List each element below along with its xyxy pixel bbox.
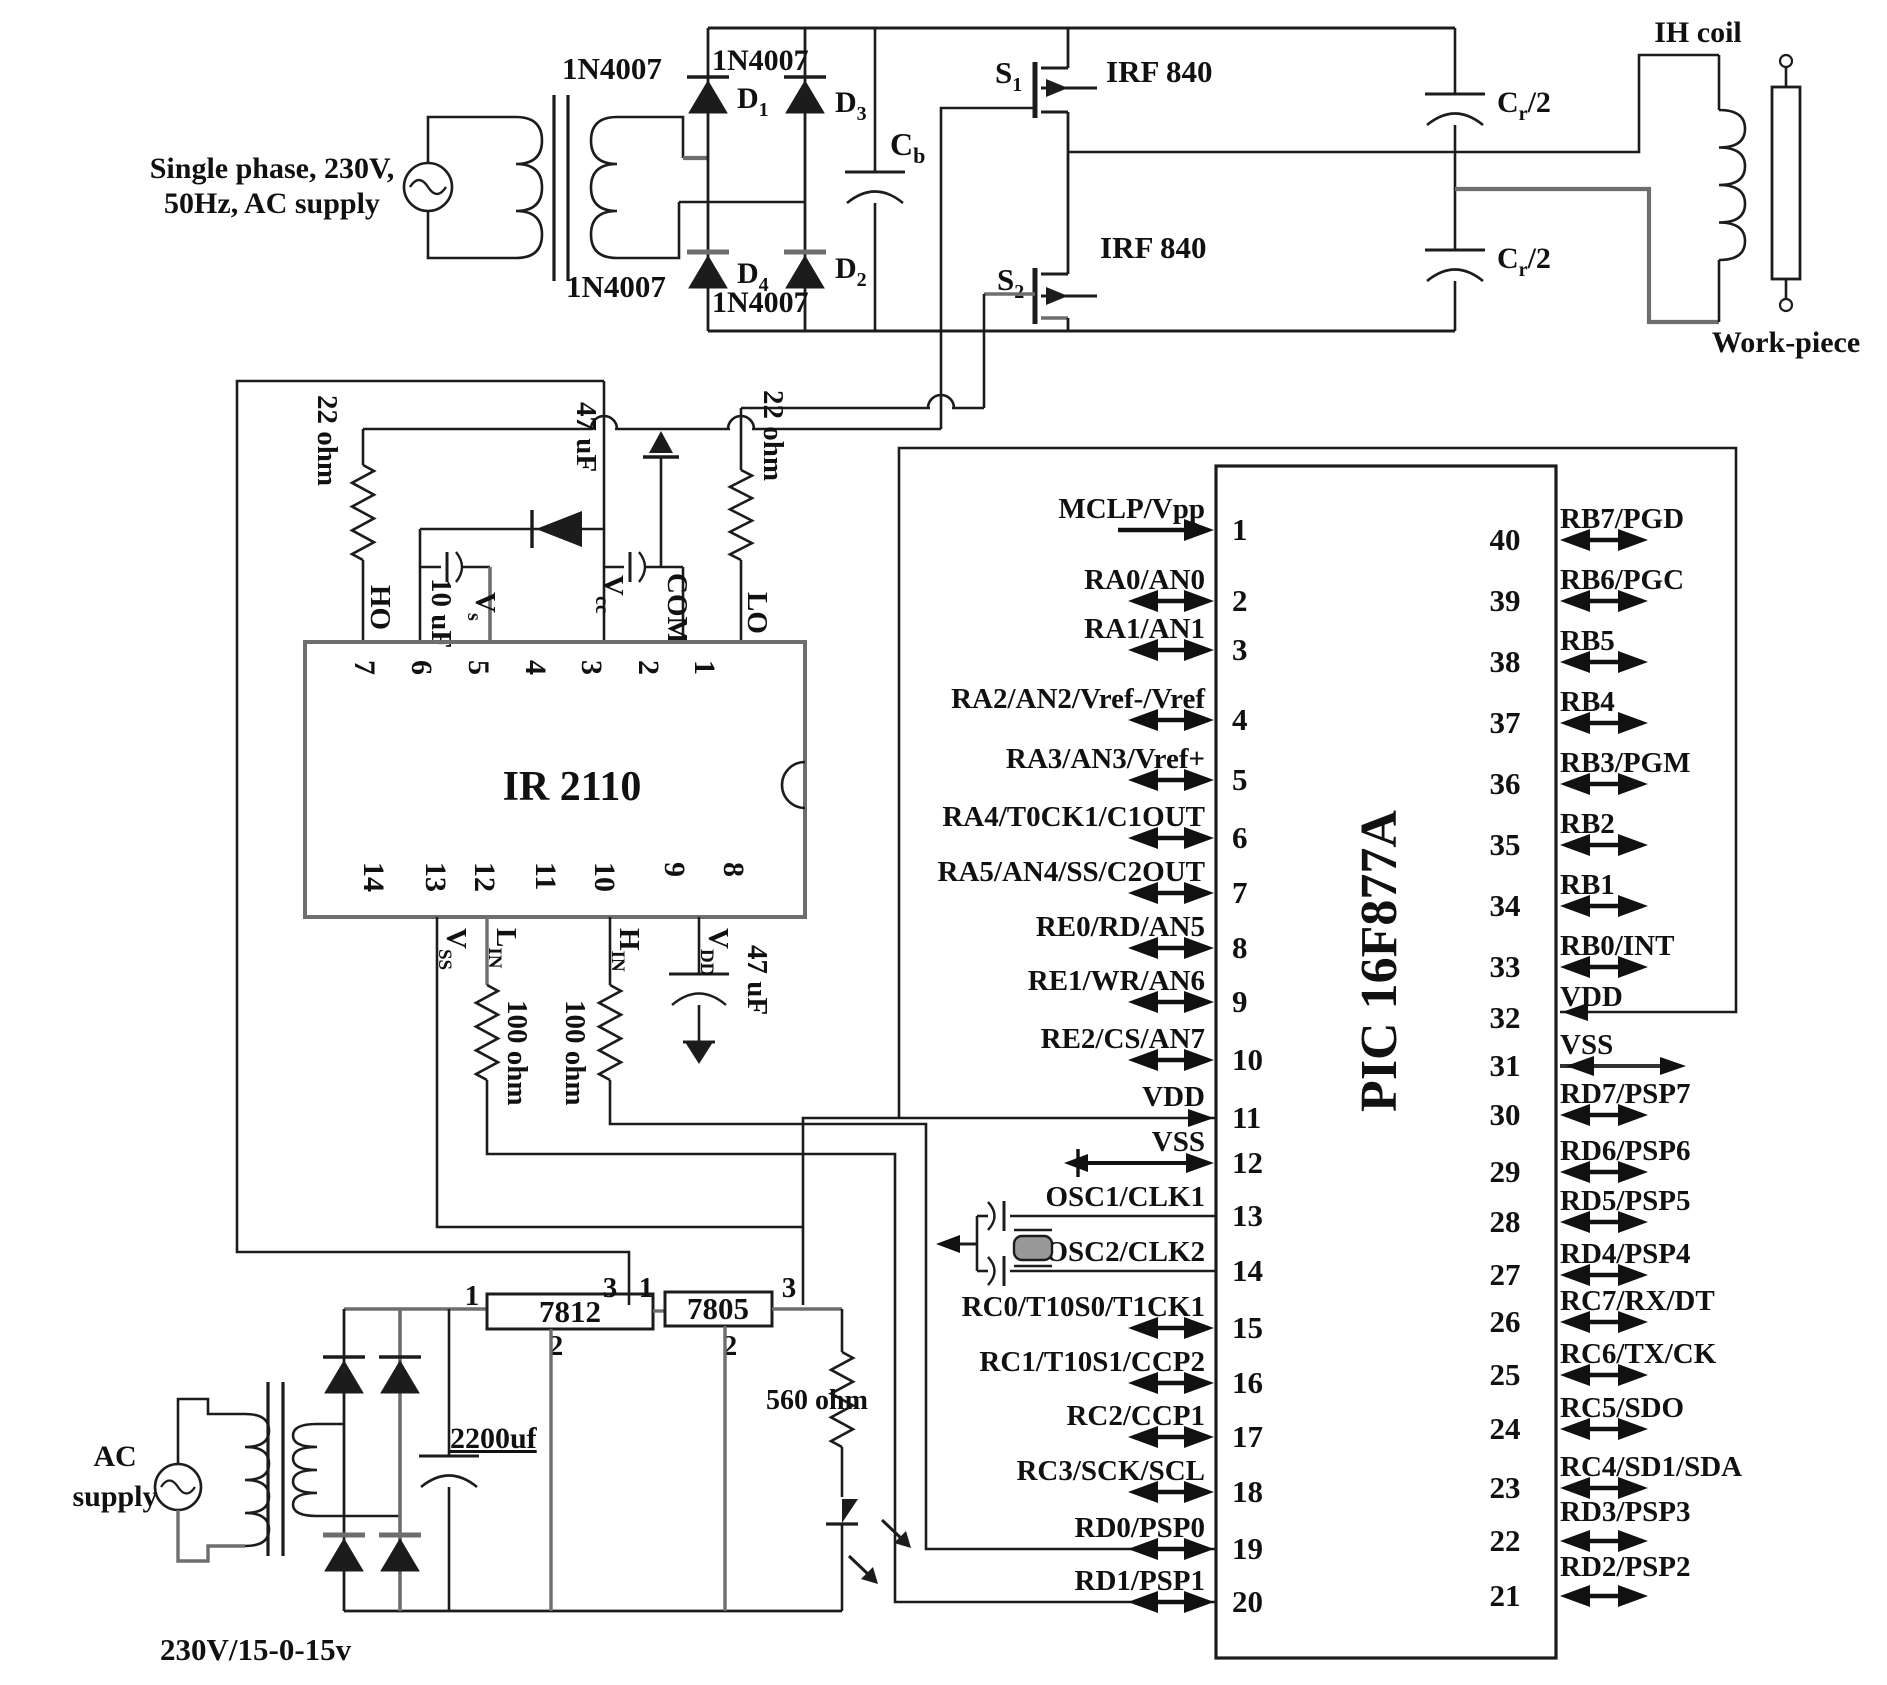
svg-text:RC2/CCP1: RC2/CCP1 [1066, 1400, 1205, 1432]
pin 9 RE1/WR/AN6 [1134, 1000, 1208, 1005]
pin 6 RA4/T0CK1/C1OUT [1134, 836, 1208, 841]
pin 18 RC3/SCK/SCL [1134, 1490, 1208, 1495]
wire 7812 gnd [549, 1329, 552, 1611]
svg-text:10 uF: 10 uF [425, 578, 457, 648]
svg-text:RB1: RB1 [1560, 869, 1615, 901]
wire D1 D4 branch [707, 28, 710, 331]
PSU bridge rails [344, 1307, 487, 1311]
pin 21 RD2/PSP2 [1566, 1594, 1642, 1599]
svg-text:40: 40 [1490, 522, 1521, 557]
svg-text:4: 4 [519, 660, 552, 675]
svg-text:8: 8 [717, 862, 750, 877]
svg-text:RD0/PSP0: RD0/PSP0 [1075, 1512, 1206, 1544]
svg-text:RB6/PGC: RB6/PGC [1560, 564, 1684, 596]
svg-text:RC3/SCK/SCL: RC3/SCK/SCL [1016, 1455, 1205, 1487]
svg-text:13: 13 [419, 862, 452, 892]
svg-text:230V/15-0-15v: 230V/15-0-15v [160, 1632, 352, 1667]
svg-text:6: 6 [1232, 820, 1248, 855]
transformer T1 primary coil [516, 117, 542, 258]
capacitor Cb [874, 28, 877, 172]
svg-text:AC: AC [93, 1440, 136, 1473]
pin 4 RA2/AN2/Vref-/Vref [1134, 718, 1208, 723]
svg-text:COM: COM [661, 573, 693, 644]
svg-text:RD7/PSP7: RD7/PSP7 [1560, 1078, 1691, 1110]
transformer T2 primary coil [245, 1414, 269, 1546]
svg-text:RC7/RX/DT: RC7/RX/DT [1560, 1285, 1715, 1317]
svg-text:RA1/AN1: RA1/AN1 [1084, 613, 1205, 645]
svg-text:10: 10 [588, 862, 621, 892]
svg-text:VDD: VDD [1142, 1081, 1205, 1113]
pin 34 RB1 [1566, 904, 1642, 909]
bridge bottom rail [708, 330, 1455, 333]
svg-text:3: 3 [1232, 632, 1248, 667]
wire crystal ground arrow [940, 1243, 977, 1246]
svg-text:30: 30 [1490, 1097, 1521, 1132]
svg-text:1: 1 [1232, 512, 1248, 547]
svg-text:37: 37 [1490, 705, 1521, 740]
svg-text:16: 16 [1232, 1365, 1263, 1400]
crystal X1 [1014, 1236, 1052, 1260]
diode PSU D7 [323, 1533, 365, 1538]
svg-text:100 ohm: 100 ohm [501, 1000, 533, 1106]
capacitor Cr/2 lower [1454, 189, 1457, 250]
svg-text:5: 5 [462, 660, 495, 675]
wire PSU diode branch 2 [398, 1309, 402, 1611]
transformer T1 secondary coil [591, 117, 617, 258]
ground Vcc bypass [660, 457, 663, 567]
svg-text:RB5: RB5 [1560, 625, 1615, 657]
pin 20 RD1/PSP1 [1134, 1600, 1208, 1605]
crystal oscillator circuit [1010, 1215, 1216, 1218]
pin 5 RA3/AN3/Vref+ [1134, 778, 1208, 783]
pin 27 RD4/PSP4 [1566, 1273, 1642, 1278]
wire pin2 COM [682, 567, 685, 642]
svg-text:Single phase, 230V,: Single phase, 230V, [150, 152, 395, 185]
svg-text:47 uF: 47 uF [570, 402, 602, 472]
pin 39 RB6/PGC [1566, 599, 1642, 604]
transformer T2 secondary coil [293, 1424, 317, 1516]
pin 31 VSS [1560, 1064, 1680, 1068]
svg-text:22 ohm: 22 ohm [311, 395, 343, 486]
svg-text:RD5/PSP5: RD5/PSP5 [1560, 1185, 1691, 1217]
AC source V2 [155, 1464, 201, 1510]
regulator 7805 [665, 1292, 772, 1326]
regulator 7812 [487, 1294, 653, 1329]
wire primary loop [428, 117, 516, 163]
svg-text:RB2: RB2 [1560, 808, 1615, 840]
pin 38 RB5 [1566, 660, 1642, 665]
wire pin9 Vdd [698, 917, 701, 974]
svg-text:1N4007: 1N4007 [712, 44, 809, 77]
work-piece [1772, 87, 1800, 279]
svg-text:34: 34 [1490, 888, 1521, 923]
wire pin5 Vs [488, 567, 492, 642]
svg-text:31: 31 [1490, 1048, 1521, 1083]
svg-text:33: 33 [1490, 949, 1521, 984]
pin 30 RD7/PSP7 [1566, 1113, 1642, 1118]
wire D3 D2 branch [804, 28, 807, 331]
svg-text:12: 12 [1232, 1145, 1263, 1180]
svg-text:8: 8 [1232, 930, 1248, 965]
svg-text:17: 17 [1232, 1419, 1263, 1454]
svg-text:39: 39 [1490, 583, 1521, 618]
wire LO net line C [741, 407, 930, 410]
pin 25 RC6/TX/CK [1566, 1373, 1642, 1378]
wire +12V to Vcc line [237, 381, 629, 1305]
svg-text:29: 29 [1490, 1154, 1521, 1189]
wire pin13 Vss [437, 917, 803, 1227]
pin 26 RC7/RX/DT [1566, 1320, 1642, 1325]
svg-text:RB3/PGM: RB3/PGM [1560, 747, 1691, 779]
svg-text:32: 32 [1490, 1000, 1521, 1035]
svg-text:27: 27 [1490, 1257, 1521, 1292]
svg-text:35: 35 [1490, 827, 1521, 862]
svg-text:supply: supply [72, 1480, 157, 1513]
wire pin12 Lin [485, 917, 488, 985]
AC source V1 [404, 163, 452, 211]
svg-text:12: 12 [468, 862, 501, 892]
transformer T1 core [552, 95, 555, 281]
svg-text:19: 19 [1232, 1531, 1263, 1566]
svg-text:Work-piece: Work-piece [1712, 326, 1860, 359]
svg-text:18: 18 [1232, 1474, 1263, 1509]
svg-text:MCLP/Vpp: MCLP/Vpp [1058, 493, 1205, 525]
svg-text:7812: 7812 [539, 1294, 601, 1329]
wire PSU primary loop [178, 1399, 245, 1464]
transistor S2 IRF840 [1033, 268, 1038, 324]
svg-text:20: 20 [1232, 1584, 1263, 1619]
LED D9 [826, 1499, 858, 1523]
svg-text:36: 36 [1490, 766, 1521, 801]
svg-text:21: 21 [1490, 1578, 1521, 1613]
svg-text:RA2/AN2/Vref-/Vref: RA2/AN2/Vref-/Vref [951, 683, 1205, 715]
op-amp U1 IR 2110 body [305, 642, 805, 917]
pin 37 RB4 [1566, 721, 1642, 726]
svg-text:LO: LO [741, 592, 773, 634]
svg-text:100 ohm: 100 ohm [559, 1000, 591, 1106]
pin 36 RB3/PGM [1566, 782, 1642, 787]
svg-text:7: 7 [348, 660, 381, 675]
svg-text:3: 3 [782, 1272, 797, 1304]
wire VDD riser [803, 1118, 1216, 1305]
svg-text:6: 6 [405, 660, 438, 675]
pin 35 RB2 [1566, 843, 1642, 848]
capacitor 47uF Vcc [604, 566, 624, 569]
svg-text:RA4/T0CK1/C1OUT: RA4/T0CK1/C1OUT [942, 801, 1205, 833]
svg-text:RD2/PSP2: RD2/PSP2 [1560, 1551, 1691, 1583]
pin 8 RE0/RD/AN5 [1134, 946, 1208, 951]
capacitor 10uF [420, 566, 441, 569]
capacitor 2200uf [448, 1309, 451, 1456]
svg-text:1: 1 [465, 1280, 480, 1312]
wire cap midpoint to IH coil return [1455, 189, 1719, 322]
wire half-bridge midpoint to IH coil [1068, 55, 1719, 152]
svg-text:RC6/TX/CK: RC6/TX/CK [1560, 1338, 1717, 1370]
svg-text:1: 1 [688, 660, 721, 675]
svg-text:IR 2110: IR 2110 [503, 764, 642, 810]
svg-text:11: 11 [529, 862, 562, 890]
wire S2 gate [984, 292, 1035, 295]
svg-text:2: 2 [632, 660, 665, 675]
pin 2 RA0/AN0 [1134, 599, 1208, 604]
pin 28 RD5/PSP5 [1566, 1220, 1642, 1225]
svg-text:HO: HO [364, 585, 396, 630]
diode D1 [687, 75, 729, 78]
wire pin6 Vb [419, 529, 422, 642]
svg-text:PIC 16F877A: PIC 16F877A [1351, 810, 1408, 1112]
pin 23 RC4/SD1/SDA [1566, 1486, 1642, 1491]
wire HO net line B [363, 428, 593, 431]
svg-text:24: 24 [1490, 1411, 1521, 1446]
resistor 560ohm [841, 1309, 844, 1352]
wire 7805 gnd [723, 1326, 726, 1611]
svg-text:1N4007: 1N4007 [562, 51, 662, 86]
svg-text:RD3/PSP3: RD3/PSP3 [1560, 1496, 1691, 1528]
svg-text:RE2/CS/AN7: RE2/CS/AN7 [1041, 1023, 1205, 1055]
svg-text:22 ohm: 22 ohm [757, 390, 789, 481]
svg-text:VDD: VDD [1560, 981, 1623, 1013]
svg-text:9: 9 [658, 862, 691, 877]
wire PSU diode branch 1 [343, 1309, 346, 1611]
resistor 100ohm Hin [599, 985, 621, 1080]
svg-text:RC0/T10S0/T1CK1: RC0/T10S0/T1CK1 [962, 1291, 1205, 1323]
diode PSU D6 [379, 1355, 421, 1358]
capacitor Cr/2 upper [1454, 28, 1457, 94]
svg-text:RD6/PSP6: RD6/PSP6 [1560, 1135, 1691, 1167]
svg-text:VSS: VSS [1152, 1126, 1205, 1158]
pin 7 RA5/AN4/SS/C2OUT [1134, 891, 1208, 896]
svg-text:50Hz, AC supply: 50Hz, AC supply [164, 187, 380, 220]
svg-text:1: 1 [639, 1272, 654, 1304]
PIC outer VDD box [899, 448, 1736, 1118]
svg-text:9: 9 [1232, 984, 1248, 1019]
svg-text:7: 7 [1232, 875, 1248, 910]
svg-text:10: 10 [1232, 1042, 1263, 1077]
svg-text:OSC1/CLK1: OSC1/CLK1 [1045, 1181, 1205, 1213]
pin 17 RC2/CCP1 [1134, 1435, 1208, 1440]
pin 29 RD6/PSP6 [1566, 1170, 1642, 1175]
svg-text:38: 38 [1490, 644, 1521, 679]
svg-text:RA3/AN3/Vref+: RA3/AN3/Vref+ [1006, 743, 1205, 775]
svg-text:4: 4 [1232, 702, 1248, 737]
svg-text:14: 14 [1232, 1253, 1263, 1288]
pin 16 RC1/T10S1/CCP2 [1134, 1381, 1208, 1386]
svg-text:RC1/T10S1/CCP2: RC1/T10S1/CCP2 [979, 1346, 1205, 1378]
svg-text:28: 28 [1490, 1204, 1521, 1239]
svg-text:7805: 7805 [687, 1291, 749, 1326]
pin 10 RE2/CS/AN7 [1134, 1058, 1208, 1063]
svg-text:1N4007: 1N4007 [712, 286, 809, 319]
svg-text:RC4/SD1/SDA: RC4/SD1/SDA [1560, 1451, 1742, 1483]
svg-text:IRF 840: IRF 840 [1106, 54, 1213, 89]
svg-text:OSC2/CLK2: OSC2/CLK2 [1045, 1236, 1205, 1268]
svg-text:2: 2 [1232, 583, 1248, 618]
diode D3 [784, 75, 826, 78]
diode D2 [784, 250, 826, 255]
svg-text:RC5/SDO: RC5/SDO [1560, 1392, 1684, 1424]
resistor 100ohm Lin [476, 985, 498, 1080]
opto arrow 1 [882, 1520, 903, 1540]
pin 12 VSS [1078, 1161, 1208, 1165]
svg-text:3: 3 [603, 1272, 618, 1304]
svg-text:RE1/WR/AN6: RE1/WR/AN6 [1028, 965, 1205, 997]
svg-text:RE0/RD/AN5: RE0/RD/AN5 [1036, 911, 1205, 943]
wire S1 gate [941, 108, 1035, 429]
resistor 22ohm LO [740, 408, 743, 470]
diode D4 [687, 250, 729, 255]
pin 22 RD3/PSP3 [1566, 1539, 1642, 1544]
svg-text:RA0/AN0: RA0/AN0 [1084, 564, 1205, 596]
diode PSU D8 [379, 1533, 421, 1538]
wire secondary to bridge input 2 [617, 202, 679, 258]
svg-text:14: 14 [357, 862, 390, 892]
pin 1 MCLP/Vpp [1118, 528, 1208, 533]
transformer T2 core [266, 1382, 269, 1556]
svg-text:VSS: VSS [1560, 1029, 1613, 1061]
svg-text:3: 3 [575, 660, 608, 675]
svg-text:13: 13 [1232, 1198, 1263, 1233]
svg-text:47 uF: 47 uF [741, 945, 773, 1015]
svg-text:RD4/PSP4: RD4/PSP4 [1560, 1238, 1691, 1270]
svg-text:RA5/AN4/SS/C2OUT: RA5/AN4/SS/C2OUT [938, 856, 1206, 888]
svg-text:RD1/PSP1: RD1/PSP1 [1075, 1565, 1206, 1597]
pin 19 RD0/PSP0 [1134, 1547, 1208, 1552]
wire secondary to bridge input 1 [617, 117, 683, 158]
pin 24 RC5/SDO [1566, 1427, 1642, 1432]
svg-text:RB7/PGD: RB7/PGD [1560, 503, 1684, 535]
svg-text:22: 22 [1490, 1523, 1521, 1558]
wire 7805 out [772, 1307, 842, 1310]
PIC 16F877A body [1216, 466, 1556, 1658]
svg-text:5: 5 [1232, 762, 1248, 797]
svg-text:15: 15 [1232, 1310, 1263, 1345]
svg-text:25: 25 [1490, 1357, 1521, 1392]
svg-text:1N4007: 1N4007 [566, 269, 666, 304]
bridge top rail [708, 27, 1455, 30]
svg-text:RB0/INT: RB0/INT [1560, 930, 1674, 962]
opto arrow 2 [849, 1556, 870, 1576]
svg-text:IRF 840: IRF 840 [1100, 230, 1207, 265]
diode PSU D5 [323, 1355, 365, 1358]
diode bootstrap [420, 528, 604, 531]
svg-text:IH coil: IH coil [1654, 16, 1742, 49]
wire pin10 Hin [609, 917, 612, 985]
wire 7812 out [653, 1309, 665, 1312]
svg-text:2200uf: 2200uf [450, 1422, 538, 1455]
pin 40 RB7/PGD [1566, 538, 1642, 543]
pin 3 RA1/AN1 [1134, 648, 1208, 653]
svg-text:560 ohm: 560 ohm [766, 1385, 868, 1416]
ground Vdd bypass [685, 1042, 713, 1064]
wire pin3 Vcc [603, 381, 606, 642]
inductor IH coil [1718, 55, 1721, 110]
pin 15 RC0/T10S0/T1CK1 [1134, 1326, 1208, 1331]
pin 33 RB0/INT [1566, 965, 1642, 970]
wire secondary to PSU bridge [317, 1423, 344, 1426]
transistor S1 IRF840 [1033, 62, 1038, 118]
svg-text:26: 26 [1490, 1304, 1521, 1339]
svg-text:23: 23 [1490, 1470, 1521, 1505]
resistor 22ohm HO [362, 429, 365, 465]
svg-text:RB4: RB4 [1560, 686, 1615, 718]
capacitor 47uF Vdd [669, 973, 729, 976]
svg-text:11: 11 [1232, 1100, 1261, 1135]
